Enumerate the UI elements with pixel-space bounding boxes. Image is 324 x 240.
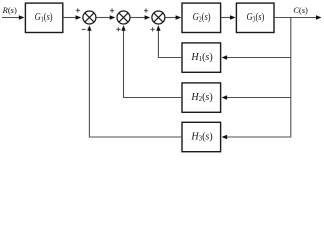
wire trunk to H1: [226, 57, 291, 59]
wire S2 to summer S3: [130, 17, 145, 19]
wire H2 return to S2: [124, 30, 183, 97]
arrowhead into S3: [145, 15, 151, 19]
arrowhead into H1 right: [222, 55, 228, 59]
wire H3 return to S1: [89, 30, 182, 137]
arrowhead into S2 bottom: [121, 25, 125, 31]
wire H1 return to S3: [158, 30, 182, 57]
svg-text:G2(s): G2(s): [193, 12, 211, 24]
sign - at S1 bottom: [82, 28, 86, 30]
wire G1 to summer S1: [63, 17, 76, 19]
arrowhead into G1: [19, 15, 25, 19]
block H2: [182, 83, 221, 112]
summing junction S1: [83, 11, 96, 24]
svg-text:R(s): R(s): [2, 5, 17, 15]
wire S3 to G2: [165, 17, 176, 19]
summing junction S3: [152, 11, 165, 24]
block H1: [182, 43, 221, 72]
sign + at S3 bottom: [151, 27, 155, 31]
svg-text:G1(s): G1(s): [35, 12, 53, 24]
block H3: [182, 122, 221, 151]
node C(s) output label: [293, 5, 308, 15]
arrowhead output: [316, 15, 322, 19]
arrowhead into S2: [110, 15, 116, 19]
summing junction S2: [117, 11, 130, 24]
arrowhead into S1 bottom: [87, 25, 91, 31]
node R(s) input label: [2, 5, 17, 15]
wire feedback trunk from takeoff: [226, 18, 291, 138]
svg-text:G3(s): G3(s): [246, 12, 264, 24]
wire G2 to G3: [221, 17, 231, 19]
block G2: [182, 3, 221, 32]
arrowhead into H3 right: [222, 135, 228, 139]
sign + at S2 top: [110, 9, 114, 13]
sign + at S2 bottom: [116, 27, 120, 31]
svg-text:C(s): C(s): [293, 5, 308, 15]
block G1: [25, 3, 62, 32]
svg-text:H1(s): H1(s): [190, 52, 212, 63]
svg-text:H2(s): H2(s): [190, 92, 212, 103]
wire S1 to summer S2: [96, 17, 110, 19]
wire trunk to H2: [226, 97, 291, 99]
sign + at S3 top: [144, 9, 148, 13]
arrowhead into S3 bottom: [156, 25, 160, 31]
wire G3 to output C(s): [274, 17, 317, 19]
arrowhead into G2: [176, 15, 182, 19]
wire R(s) to G1: [2, 17, 20, 19]
svg-text:H3(s): H3(s): [190, 132, 212, 143]
arrowhead into H2 right: [222, 95, 228, 99]
arrowhead into S1: [76, 15, 82, 19]
sign + at S1 top: [76, 8, 80, 12]
arrowhead into G3: [230, 15, 236, 19]
block G3: [236, 3, 274, 32]
